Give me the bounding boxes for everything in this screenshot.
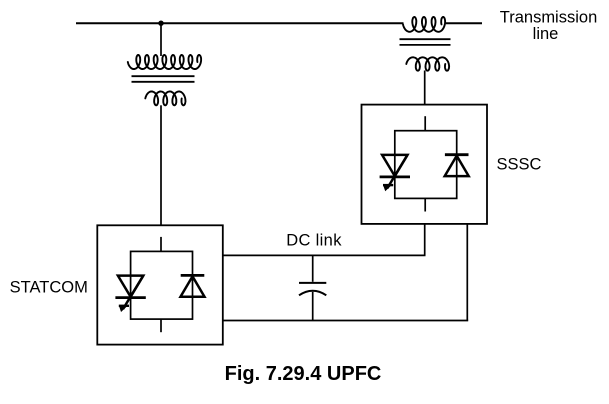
svg-text:STATCOM: STATCOM <box>10 279 88 297</box>
svg-text:DC link: DC link <box>286 231 342 249</box>
svg-text:line: line <box>533 25 559 43</box>
svg-text:Fig. 7.29.4 UPFC: Fig. 7.29.4 UPFC <box>225 363 382 385</box>
svg-text:SSSC: SSSC <box>497 156 542 174</box>
svg-text:Transmission: Transmission <box>500 8 598 26</box>
